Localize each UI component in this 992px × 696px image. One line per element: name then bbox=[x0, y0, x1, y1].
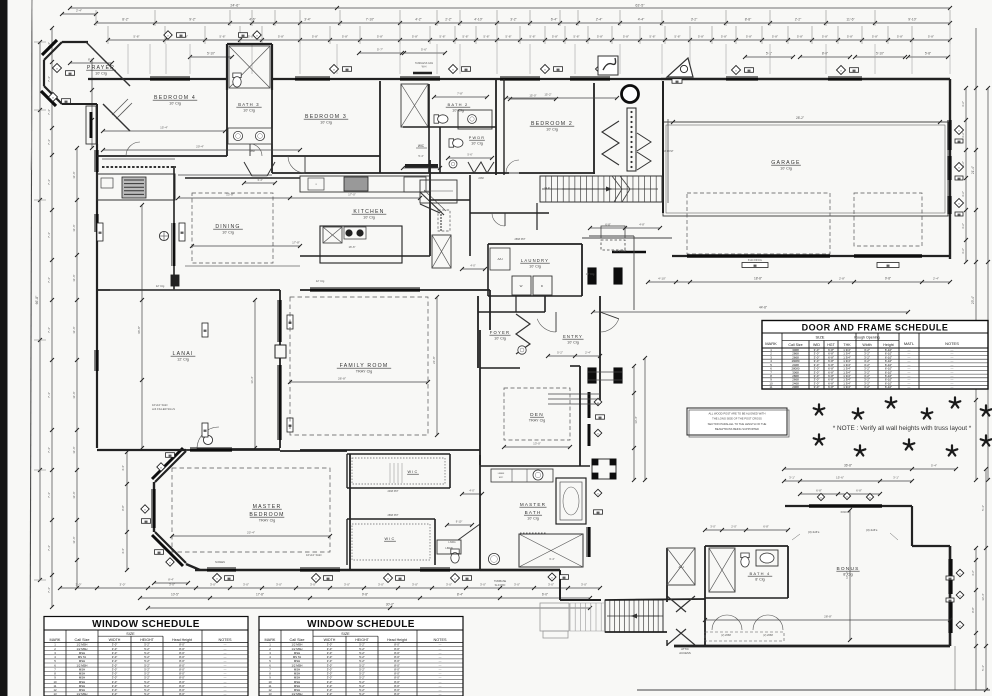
svg-text:▮▮: ▮▮ bbox=[675, 79, 679, 83]
wall family right bbox=[489, 290, 491, 330]
lanai column tags bbox=[202, 323, 208, 337]
den window diamonds bbox=[594, 398, 602, 406]
svg-text:LNDG: LNDG bbox=[448, 540, 455, 544]
bedroom2 closet bifold chevrons bbox=[602, 121, 619, 165]
window lanai-dining bbox=[173, 223, 176, 266]
garage door label 1 bbox=[742, 263, 768, 268]
diamond tags below bottom wall bbox=[212, 573, 221, 582]
svg-text:12' Clg: 12' Clg bbox=[316, 279, 325, 283]
window family top sgd bbox=[310, 288, 420, 291]
wall prayer bay left bbox=[43, 60, 45, 86]
family vertical dim bbox=[436, 297, 438, 435]
svg-text:HEIGHT: HEIGHT bbox=[140, 638, 154, 642]
toilet room door diagonal bbox=[458, 524, 480, 540]
window family bottom bbox=[190, 448, 232, 451]
svg-text:10' Clg: 10' Clg bbox=[95, 72, 107, 76]
svg-text:TRAY Clg: TRAY Clg bbox=[529, 419, 546, 423]
svg-text:MARK: MARK bbox=[50, 638, 61, 642]
wall stair top bbox=[605, 599, 705, 600]
lanai-family divide wall upper bbox=[279, 290, 281, 345]
svg-text:13'-0": 13'-0" bbox=[533, 442, 541, 446]
svg-text:3'-2": 3'-2" bbox=[961, 223, 965, 229]
svg-text:17'-8": 17'-8" bbox=[256, 593, 264, 597]
corner dim top-left bbox=[62, 13, 96, 15]
stairs arrow down bbox=[631, 615, 663, 617]
svg-text:5'-8": 5'-8" bbox=[674, 35, 680, 39]
wall garage right bbox=[949, 79, 951, 259]
foyer niche circle bbox=[518, 346, 526, 354]
bath2 shower xbox bbox=[401, 84, 428, 127]
dim line left second bbox=[51, 28, 53, 607]
den right wall windows bbox=[588, 392, 591, 418]
svg-text:TUB/BASE: TUB/BASE bbox=[494, 580, 507, 583]
svg-text:NOTES: NOTES bbox=[433, 638, 447, 642]
bedroom2 door arc bbox=[506, 160, 519, 173]
dim row local top y57 bbox=[190, 56, 232, 58]
shear tag box with link icon bbox=[598, 56, 618, 75]
svg-text:WIC: WIC bbox=[408, 470, 419, 474]
svg-text:5'-8": 5'-8" bbox=[925, 52, 931, 56]
svg-text:5'-8": 5'-8" bbox=[822, 35, 828, 39]
dim line top second bbox=[96, 22, 950, 24]
window garage top 2 bbox=[828, 77, 862, 80]
svg-text:5'-4": 5'-4" bbox=[981, 665, 985, 671]
svg-text:Rough Opening: Rough Opening bbox=[854, 336, 879, 340]
door and frame schedule table bbox=[762, 321, 988, 390]
svg-text:▮▮: ▮▮ bbox=[227, 576, 231, 580]
bonus right diamonds bbox=[956, 569, 964, 577]
rear porch dim bbox=[590, 227, 660, 229]
svg-text:▮▮: ▮▮ bbox=[203, 328, 207, 332]
svg-text:Head Height: Head Height bbox=[172, 638, 192, 642]
mud dotted strip bbox=[440, 211, 442, 213]
garage bottom dim row bbox=[648, 281, 950, 283]
svg-text:3'-0": 3'-0" bbox=[710, 525, 716, 529]
foyer closet divider bbox=[515, 296, 517, 312]
dim line bottom first bbox=[60, 587, 600, 589]
dining north door dim bbox=[244, 182, 275, 184]
svg-text:7'-4": 7'-4" bbox=[47, 76, 51, 82]
svg-text:5'-8": 5'-8" bbox=[342, 35, 348, 39]
svg-text:63'-5": 63'-5" bbox=[635, 4, 645, 8]
svg-text:9'-8": 9'-8" bbox=[362, 593, 368, 597]
garage left inner line bbox=[667, 119, 669, 203]
svg-text:▮▮: ▮▮ bbox=[179, 33, 183, 37]
svg-text:4'-10": 4'-10" bbox=[474, 18, 483, 22]
svg-text:ALL WOOD POST ARE TO BE ALIGNE: ALL WOOD POST ARE TO BE ALIGNED WITH bbox=[709, 412, 766, 416]
svg-text:NOTES: NOTES bbox=[945, 341, 959, 346]
svg-text:17'-2": 17'-2" bbox=[845, 571, 849, 579]
kitchen island bbox=[320, 226, 402, 263]
master bath shower bbox=[519, 534, 583, 567]
dim line bottom third bbox=[148, 607, 590, 609]
svg-text:WID: WID bbox=[813, 343, 820, 347]
wall family top bbox=[300, 289, 490, 291]
svg-text:5'-10": 5'-10" bbox=[207, 52, 215, 56]
svg-text:ACCESS: ACCESS bbox=[679, 651, 691, 655]
svg-text:5'-8": 5'-8" bbox=[772, 35, 778, 39]
svg-text:10' Clg: 10' Clg bbox=[363, 216, 375, 220]
svg-text:5'-8": 5'-8" bbox=[649, 35, 655, 39]
washer dryer bbox=[512, 276, 531, 295]
bonus dim line 2 bbox=[784, 480, 912, 482]
wall bedroom2 right bbox=[593, 83, 595, 174]
garage door opening 1 bbox=[687, 254, 830, 257]
summer kitchen sink bbox=[101, 178, 113, 188]
svg-text:3'-0": 3'-0" bbox=[378, 583, 384, 587]
svg-text:▮▮: ▮▮ bbox=[556, 67, 560, 71]
mud dashed fridge bbox=[438, 210, 450, 231]
svg-text:3'-1": 3'-1" bbox=[789, 476, 795, 480]
window bedroom3 top 2 bbox=[400, 77, 440, 80]
svg-text:3'-2": 3'-2" bbox=[961, 191, 965, 197]
dim line right outer bbox=[975, 28, 977, 480]
svg-text:SIZE: SIZE bbox=[816, 335, 825, 340]
svg-text:5'-8": 5'-8" bbox=[505, 35, 511, 39]
svg-text:▮▮: ▮▮ bbox=[852, 68, 856, 72]
kitchen fridge bbox=[404, 177, 426, 192]
island sink xbox bbox=[323, 227, 342, 243]
svg-text:6'-8": 6'-8" bbox=[605, 223, 611, 227]
svg-text:WIC: WIC bbox=[418, 144, 425, 148]
svg-text:▮▮: ▮▮ bbox=[98, 230, 102, 234]
svg-text:2'-8": 2'-8" bbox=[839, 277, 845, 281]
bonus dim line 1 bbox=[784, 468, 956, 470]
svg-text:6'-8": 6'-8" bbox=[828, 385, 834, 389]
tub bay bath3 walls bbox=[227, 43, 272, 45]
svg-text:5'-8": 5'-8" bbox=[872, 35, 878, 39]
bath2 toilet bbox=[434, 115, 448, 123]
svg-text:5'-8": 5'-8" bbox=[847, 35, 853, 39]
svg-text:5'-10": 5'-10" bbox=[876, 52, 884, 56]
svg-text:MARK: MARK bbox=[265, 638, 276, 642]
svg-text:4x6 POST: 4x6 POST bbox=[614, 249, 627, 253]
svg-text:28'-2": 28'-2" bbox=[796, 116, 804, 120]
svg-text:▮▮: ▮▮ bbox=[168, 453, 172, 457]
svg-text:11'-6": 11'-6" bbox=[72, 491, 76, 498]
window lanai-family upper bbox=[278, 300, 281, 342]
svg-text:WIDTH: WIDTH bbox=[109, 638, 121, 642]
mud hall doors bbox=[468, 162, 494, 173]
window garage top 1 bbox=[726, 77, 758, 80]
svg-text:7'-4": 7'-4" bbox=[47, 232, 51, 238]
svg-text:5'-2": 5'-2" bbox=[557, 351, 563, 355]
roof bearing triangle symbol bbox=[667, 58, 693, 77]
svg-text:4'-0": 4'-0" bbox=[469, 489, 474, 493]
svg-text:28'-8": 28'-8" bbox=[824, 615, 832, 619]
svg-text:TRAY Clg: TRAY Clg bbox=[259, 519, 276, 523]
svg-text:3'-2": 3'-2" bbox=[971, 570, 975, 576]
svg-text:Call Size: Call Size bbox=[290, 638, 305, 642]
window bedroom3 top bbox=[295, 77, 330, 80]
svg-text:5'-8": 5'-8" bbox=[928, 35, 934, 39]
master dim bbox=[172, 535, 330, 537]
svg-text:15'-4": 15'-4" bbox=[160, 126, 168, 130]
window lanai left wall upper bbox=[95, 214, 98, 232]
svg-text:▮▮: ▮▮ bbox=[957, 139, 961, 143]
svg-text:3'-0": 3'-0" bbox=[243, 583, 249, 587]
window bedroom2 top bbox=[500, 77, 540, 80]
svg-text:3'-0": 3'-0" bbox=[514, 583, 520, 587]
svg-text:SIZE: SIZE bbox=[341, 632, 350, 636]
svg-text:2868 PKT: 2868 PKT bbox=[387, 514, 399, 517]
svg-text:4'-4": 4'-4" bbox=[121, 465, 125, 471]
svg-text:3'-0": 3'-0" bbox=[548, 583, 554, 587]
svg-text:PWDR: PWDR bbox=[469, 136, 485, 140]
svg-text:6'-4": 6'-4" bbox=[551, 18, 558, 22]
svg-text:5'-8": 5'-8" bbox=[573, 35, 579, 39]
svg-text:5'-8": 5'-8" bbox=[597, 35, 603, 39]
svg-text:2'-2": 2'-2" bbox=[795, 18, 802, 22]
svg-text:8'-0": 8'-0" bbox=[822, 52, 828, 56]
window master bottom 1 bbox=[207, 568, 236, 571]
bath4 bottom wall bbox=[705, 597, 788, 599]
svg-text:Head Height: Head Height bbox=[387, 638, 407, 642]
svg-text:LINEN: LINEN bbox=[445, 547, 453, 550]
svg-text:21'-8": 21'-8" bbox=[432, 356, 436, 364]
svg-text:3'-2": 3'-2" bbox=[510, 18, 517, 22]
page border line left bbox=[30, 0, 32, 696]
svg-text:3'-0": 3'-0" bbox=[344, 583, 350, 587]
garage door label 2 bbox=[877, 263, 899, 268]
master bay bottom dim bbox=[154, 582, 188, 584]
garage dashed car area 1 bbox=[687, 193, 830, 254]
svg-text:3'-2": 3'-2" bbox=[691, 18, 698, 22]
powder near den bbox=[451, 549, 459, 563]
svg-text:5'-8": 5'-8" bbox=[623, 35, 629, 39]
corridor door arc bath3 bbox=[250, 144, 262, 156]
svg-text:16'-6": 16'-6" bbox=[348, 245, 355, 249]
svg-text:2068: 2068 bbox=[792, 385, 799, 389]
island cooktop burners bbox=[345, 229, 352, 236]
wall shower-bath2 divide bbox=[428, 84, 430, 173]
wic shelf band bbox=[405, 164, 438, 168]
svg-text:5'-8": 5'-8" bbox=[897, 35, 903, 39]
wall lanai bottom to master bay bbox=[97, 449, 186, 451]
svg-text:3'-4": 3'-4" bbox=[304, 18, 311, 22]
svg-text:2868: 2868 bbox=[249, 150, 255, 153]
svg-text:15'-0": 15'-0" bbox=[529, 94, 536, 98]
svg-text:7'-4": 7'-4" bbox=[47, 545, 51, 551]
svg-text:▮▮: ▮▮ bbox=[598, 415, 602, 419]
bedroom2 left wall bbox=[495, 79, 497, 175]
window schedule table left bbox=[44, 617, 248, 696]
extension lines from top dims bbox=[95, 10, 97, 26]
bath3 toilet bbox=[233, 73, 241, 87]
svg-text:ENTRY: ENTRY bbox=[563, 334, 583, 339]
svg-text:LAUNDRY: LAUNDRY bbox=[521, 258, 549, 263]
svg-text:30'-0": 30'-0" bbox=[386, 603, 395, 607]
svg-text:4'-10": 4'-10" bbox=[658, 277, 666, 281]
svg-text:24'-6": 24'-6" bbox=[230, 4, 240, 8]
dim line overall left bbox=[39, 42, 41, 580]
svg-text:—: — bbox=[908, 385, 911, 389]
svg-text:SLD RFD: SLD RFD bbox=[495, 584, 506, 587]
svg-text:5'-8": 5'-8" bbox=[219, 35, 225, 39]
lanai nook post bbox=[171, 275, 179, 286]
svg-text:5'-6": 5'-6" bbox=[421, 48, 427, 52]
wall master bath left bbox=[479, 455, 481, 570]
master bath tub bbox=[556, 478, 586, 524]
svg-text:FOYER: FOYER bbox=[490, 330, 510, 335]
flue wall dotted strip bbox=[627, 108, 636, 171]
wall garage left bbox=[662, 81, 664, 213]
svg-text:▮▮: ▮▮ bbox=[326, 576, 330, 580]
sill line left of corridor bbox=[178, 174, 272, 176]
pantry cabinets band bbox=[420, 180, 457, 203]
wall family bottom right bbox=[300, 449, 480, 451]
svg-text:SECTION PARALLEL TO THE LENGTH: SECTION PARALLEL TO THE LENGTH OF THE bbox=[708, 422, 767, 426]
fireplace block lanai-family wall bbox=[275, 345, 286, 358]
dim line left inner top bbox=[91, 60, 93, 148]
tagbox under triangle bbox=[672, 79, 682, 84]
svg-text:A/H: A/H bbox=[497, 257, 502, 261]
svg-text:10'-5": 10'-5" bbox=[171, 593, 179, 597]
svg-text:5'-8": 5'-8" bbox=[133, 35, 139, 39]
svg-text:▮▮: ▮▮ bbox=[345, 67, 349, 71]
master bath right wall windows bbox=[587, 527, 590, 557]
svg-text:1/2 MSH: 1/2 MSH bbox=[292, 692, 303, 696]
mud hall dim bbox=[462, 268, 485, 270]
svg-text:8'-0": 8'-0" bbox=[88, 58, 94, 62]
svg-text:8'-4": 8'-4" bbox=[168, 578, 174, 582]
kitchen-dining long dim bbox=[178, 197, 420, 199]
entry dims bbox=[548, 355, 600, 357]
svg-text:3'-2": 3'-2" bbox=[961, 132, 965, 138]
svg-text:—: — bbox=[439, 692, 442, 696]
hall wall above laundry bbox=[470, 212, 549, 214]
bonus hall wall bbox=[704, 546, 706, 646]
bedroom2 interior dim line bbox=[506, 97, 617, 99]
master bath counter top wall bbox=[491, 469, 553, 482]
window lanai left wall top bbox=[95, 150, 98, 172]
main stairs arrow bbox=[562, 188, 612, 190]
bath4 dim row bbox=[705, 529, 788, 531]
svg-text:▮▮: ▮▮ bbox=[948, 576, 952, 580]
family tray dashed bbox=[290, 297, 428, 435]
counter lanai summer kitchen bbox=[97, 174, 175, 200]
svg-text:5'-1": 5'-1" bbox=[766, 52, 772, 56]
linen robe boxes bbox=[511, 469, 513, 482]
svg-text:8'-0": 8'-0" bbox=[179, 692, 185, 696]
pwdr dim bbox=[448, 157, 492, 159]
svg-text:2'-4": 2'-4" bbox=[76, 9, 82, 13]
svg-text:5'-2": 5'-2" bbox=[359, 692, 365, 696]
bonus bottom border line bbox=[637, 689, 990, 691]
window lanai-family lower bbox=[278, 365, 281, 440]
dim line top third bbox=[108, 39, 950, 41]
wall master bath step down bbox=[559, 570, 561, 600]
den dim bbox=[504, 446, 570, 448]
entry porch posts upper bbox=[588, 268, 596, 284]
svg-text:BATH 2: BATH 2 bbox=[448, 102, 469, 107]
wall foyer left bbox=[477, 296, 479, 368]
svg-text:▮▮: ▮▮ bbox=[203, 428, 207, 432]
svg-text:▮▮: ▮▮ bbox=[957, 212, 961, 216]
svg-text:4'-4": 4'-4" bbox=[121, 548, 125, 554]
svg-text:5'-8": 5'-8" bbox=[312, 35, 318, 39]
wall master bath bottom bbox=[480, 569, 560, 571]
svg-text:12' Clg: 12' Clg bbox=[156, 284, 165, 288]
wall family bottom bbox=[97, 449, 280, 451]
entry door arcs bbox=[537, 319, 556, 332]
svg-text:5'-4": 5'-4" bbox=[931, 464, 937, 468]
svg-text:WINDOW SCHEDULE: WINDOW SCHEDULE bbox=[92, 619, 200, 630]
svg-text:5'-2": 5'-2" bbox=[144, 692, 150, 696]
svg-text:3'-0": 3'-0" bbox=[76, 583, 82, 587]
svg-text:7'-10": 7'-10" bbox=[366, 18, 375, 22]
wall garage top bbox=[661, 78, 950, 80]
svg-text:10' Clg: 10' Clg bbox=[320, 121, 332, 125]
svg-text:20'-4": 20'-4" bbox=[196, 145, 204, 149]
porch beam lines bbox=[588, 371, 622, 373]
svg-text:6'-10": 6'-10" bbox=[885, 385, 892, 389]
svg-text:11'-6": 11'-6" bbox=[72, 224, 76, 231]
bonus inner right dim bbox=[975, 548, 977, 690]
svg-text:4'-8": 4'-8" bbox=[639, 223, 645, 227]
bath3 sinks bbox=[233, 131, 242, 140]
dim line right far bbox=[987, 88, 989, 480]
tagbox lanai left wall upper bbox=[97, 223, 103, 241]
overall porch dim 44-8 bbox=[593, 311, 908, 313]
svg-text:6'-8": 6'-8" bbox=[816, 489, 822, 493]
svg-text:▮▮: ▮▮ bbox=[398, 576, 402, 580]
svg-text:1 3/4": 1 3/4" bbox=[843, 385, 850, 389]
svg-text:3'-1": 3'-1" bbox=[893, 476, 899, 480]
bonus top window band bbox=[809, 504, 882, 507]
wall master bottom bbox=[186, 564, 200, 570]
wall left corridor upper bbox=[96, 104, 98, 144]
wall bedroom wing top left bbox=[88, 78, 227, 80]
svg-text:44'-8": 44'-8" bbox=[759, 306, 767, 310]
svg-text:7'-4": 7'-4" bbox=[47, 447, 51, 453]
wall prayer right diagonal bbox=[86, 42, 130, 86]
svg-text:2468 PKT: 2468 PKT bbox=[387, 490, 399, 493]
clean niche boxes bbox=[308, 178, 324, 190]
entry porch posts mid bbox=[588, 368, 596, 383]
svg-text:10' Clg: 10' Clg bbox=[529, 265, 541, 269]
svg-text:▮▮: ▮▮ bbox=[64, 99, 68, 103]
garage inner ceiling rect bbox=[663, 122, 948, 216]
svg-text:6'-4": 6'-4" bbox=[549, 557, 554, 561]
wic1 walls bbox=[347, 453, 450, 455]
svg-text:5'-7": 5'-7" bbox=[377, 48, 383, 52]
svg-text:5'-8": 5'-8" bbox=[529, 35, 535, 39]
svg-text:3'-0": 3'-0" bbox=[327, 692, 333, 696]
svg-text:18'-8": 18'-8" bbox=[754, 277, 762, 281]
svg-text:12' Clg: 12' Clg bbox=[586, 272, 595, 276]
svg-text:8'-8": 8'-8" bbox=[971, 607, 975, 613]
window schedule table right bbox=[259, 617, 463, 696]
svg-text:7'-4": 7'-4" bbox=[47, 392, 51, 398]
bedroom4 interior dim bbox=[103, 130, 225, 132]
stars field bbox=[814, 404, 825, 414]
svg-text:7'-8": 7'-8" bbox=[457, 92, 463, 96]
window bedroom4 top bbox=[150, 77, 190, 80]
master top wall bbox=[197, 448, 280, 450]
svg-text:THK: THK bbox=[843, 343, 851, 347]
svg-text:—: — bbox=[951, 385, 954, 389]
svg-text:5'-8": 5'-8" bbox=[412, 35, 418, 39]
svg-text:BATH 4: BATH 4 bbox=[750, 571, 771, 576]
svg-text:▮▮: ▮▮ bbox=[464, 67, 468, 71]
svg-text:A/H: A/H bbox=[678, 565, 683, 569]
svg-text:▮▮: ▮▮ bbox=[948, 598, 952, 602]
svg-text:3'-0": 3'-0" bbox=[210, 583, 216, 587]
wall bedroom3 right bbox=[379, 81, 381, 173]
svg-text:13'-8": 13'-8" bbox=[226, 193, 234, 197]
svg-text:10' Clg: 10' Clg bbox=[567, 341, 579, 345]
